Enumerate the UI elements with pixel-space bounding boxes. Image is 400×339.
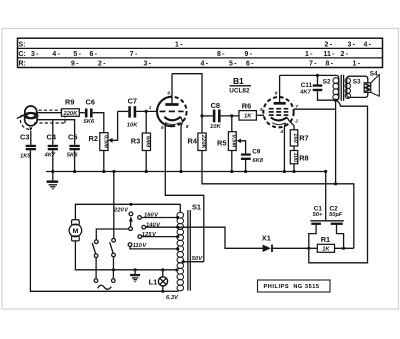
svg-text:8 -: 8 - <box>326 61 334 68</box>
wire bus to C1/C2 plus <box>325 172 327 221</box>
capacitor C3 <box>20 132 36 159</box>
pentode anode lead pin 6 <box>279 75 281 103</box>
R5 wiper arrow <box>241 141 246 154</box>
svg-text:M: M <box>73 228 79 235</box>
pentode heater arc pin 4 <box>272 123 285 125</box>
svg-text:2 -: 2 - <box>341 51 349 58</box>
svg-text:50V: 50V <box>192 256 203 262</box>
svg-text:S1: S1 <box>192 202 201 211</box>
wire wiper node to C7 <box>118 110 129 112</box>
transformer tap dots <box>176 216 179 219</box>
node R8 on bus <box>292 170 295 173</box>
svg-text:R:: R: <box>19 61 26 68</box>
svg-text:8 -: 8 - <box>217 51 225 58</box>
feedback/screen supply line from S2 bottom node to rectifier node <box>309 100 368 263</box>
svg-text:5K6: 5K6 <box>84 119 95 125</box>
node R3 on bus <box>145 170 148 173</box>
svg-text:S:: S: <box>19 41 26 48</box>
wire pickup to R9 <box>37 112 62 114</box>
node C9 on bus <box>244 170 247 173</box>
svg-text:50+: 50+ <box>313 212 323 218</box>
svg-text:6K8: 6K8 <box>252 158 263 164</box>
svg-text:C3: C3 <box>20 132 29 141</box>
node R5 on bus <box>230 170 233 173</box>
output transformer S2 primary <box>323 75 339 100</box>
svg-text:6,3V: 6,3V <box>166 295 179 301</box>
svg-text:1: 1 <box>149 105 152 111</box>
wire C5 to bus <box>74 150 76 171</box>
pentode anode bar <box>274 102 286 105</box>
svg-text:C9: C9 <box>252 148 261 155</box>
svg-text:R2: R2 <box>89 134 98 143</box>
resistor R9 <box>62 98 80 117</box>
svg-text:110 V: 110 V <box>133 243 148 249</box>
svg-text:C8: C8 <box>211 101 220 110</box>
pentode cathode arc pin 2 <box>271 117 287 120</box>
capacitor C4 <box>44 132 58 158</box>
svg-text:2: 2 <box>294 118 298 124</box>
svg-text:B1: B1 <box>233 76 244 86</box>
svg-text:R4: R4 <box>188 136 198 145</box>
svg-text:10K: 10K <box>127 122 138 128</box>
node pentode heater on bus <box>283 170 286 173</box>
PHILIPS type label <box>258 280 331 292</box>
svg-text:220 V: 220 V <box>113 207 129 213</box>
triode cathode arc pin 8 <box>164 117 180 121</box>
svg-text:9 -: 9 - <box>245 51 253 58</box>
svg-text:R3: R3 <box>131 137 140 146</box>
B+ vertical from S2 bottom to R1 <box>335 100 337 184</box>
triode anode lead pin 9 <box>171 74 173 105</box>
svg-text:220K: 220K <box>62 111 78 117</box>
filter caps C1 C2 <box>309 206 344 249</box>
triode grid dashes pin 1 <box>149 105 184 111</box>
svg-text:C5: C5 <box>68 132 77 141</box>
wire R2 to bus <box>103 151 105 172</box>
svg-text:100: 100 <box>292 152 298 162</box>
140V tap <box>142 222 161 229</box>
svg-text:C7: C7 <box>128 97 137 106</box>
svg-text:5 -: 5 - <box>73 51 81 58</box>
svg-text:4 -: 4 - <box>364 41 372 48</box>
triode heater arc pin 5 <box>166 123 180 125</box>
resistor R1 <box>309 235 354 253</box>
svg-text:0,5M: 0,5M <box>103 135 109 148</box>
triode anode bar <box>165 103 178 106</box>
svg-text:X1: X1 <box>262 234 271 243</box>
svg-text:C:: C: <box>19 51 26 58</box>
capacitor C9 <box>241 148 264 163</box>
svg-text:9: 9 <box>167 91 170 97</box>
potentiometer R5 <box>217 132 237 151</box>
svg-text:R7: R7 <box>299 134 308 143</box>
triode anode loop to R4 <box>172 74 202 133</box>
svg-text:R9: R9 <box>65 98 74 107</box>
svg-text:7 -: 7 - <box>130 51 138 58</box>
svg-text:3 -: 3 - <box>31 51 39 58</box>
power transformer S1 <box>177 202 201 291</box>
node C5 on bus <box>73 170 76 173</box>
svg-text:6M8: 6M8 <box>145 136 151 148</box>
svg-text:160: 160 <box>292 133 298 143</box>
svg-text:UCL82: UCL82 <box>229 88 250 95</box>
wire R4 bottom to B+ node <box>202 151 336 184</box>
wire C6 to R2 top <box>93 113 104 133</box>
wire R9 to C6 <box>79 112 85 114</box>
wire C3 down left side to bottom rail <box>30 150 162 291</box>
svg-text:7 -: 7 - <box>309 61 317 68</box>
svg-text:5K6: 5K6 <box>67 152 78 158</box>
110V tap <box>128 243 177 249</box>
capacitor C6 <box>84 97 95 125</box>
50V tap to heater chain <box>183 256 204 262</box>
secondary S3 and loop <box>345 76 368 98</box>
svg-text:4K7: 4K7 <box>44 152 56 158</box>
resistor R7 <box>290 130 308 146</box>
svg-text:1K5: 1K5 <box>20 154 31 160</box>
legend row R resistors <box>19 61 361 68</box>
svg-text:4 -: 4 - <box>201 61 209 68</box>
svg-text:11 -: 11 - <box>324 51 336 58</box>
svg-text:S3: S3 <box>353 79 361 86</box>
pentode screen lead pin 7 <box>293 108 335 110</box>
resistor R4 <box>188 133 207 151</box>
svg-text:2 -: 2 - <box>325 41 333 48</box>
R2 wiper arrow <box>112 111 117 140</box>
svg-text:5 -: 5 - <box>229 61 237 68</box>
svg-text:R8: R8 <box>299 154 308 163</box>
svg-text:1K: 1K <box>244 114 252 120</box>
mains switch S1a <box>92 229 129 282</box>
svg-text:220K: 220K <box>200 134 206 150</box>
svg-text:1 -: 1 - <box>305 51 313 58</box>
pickup cartridge <box>17 106 38 126</box>
svg-text:PHILIPS NG 3515: PHILIPS NG 3515 <box>264 284 320 290</box>
svg-text:10K: 10K <box>210 124 221 130</box>
svg-text:5: 5 <box>161 125 164 131</box>
capacitor C5 <box>67 132 80 158</box>
AC mains squiggle <box>98 285 112 289</box>
svg-text:R1: R1 <box>321 235 330 244</box>
160V tap <box>138 213 178 220</box>
svg-text:0,5M: 0,5M <box>231 135 237 148</box>
pilot lamp L1 <box>149 270 168 293</box>
wire pickup to C3 <box>30 131 32 145</box>
svg-text:9 -: 9 - <box>71 61 79 68</box>
potentiometer R2 <box>89 133 109 151</box>
svg-text:S2: S2 <box>323 78 331 85</box>
node switch feed on bus <box>112 170 115 173</box>
svg-text:C6: C6 <box>86 97 95 106</box>
speaker S4 <box>364 71 379 97</box>
wire motor bottom to rail <box>75 241 176 270</box>
capacitor C11 <box>299 75 335 100</box>
svg-text:1 -: 1 - <box>175 41 183 48</box>
wire C7 to grid node <box>136 110 157 112</box>
bottom rail to transformer <box>163 290 178 292</box>
wire motor top to mains line <box>75 204 180 220</box>
stylus tip <box>29 127 32 131</box>
node C4/ground on bus <box>51 170 54 173</box>
125V tap <box>138 232 178 239</box>
svg-text:3 -: 3 - <box>144 61 152 68</box>
node R2 on bus <box>102 170 105 173</box>
svg-text:4 -: 4 - <box>52 51 60 58</box>
pentode grid dash rows <box>269 109 289 115</box>
transformer core <box>340 75 342 101</box>
svg-text:50µF: 50µF <box>329 212 343 218</box>
diode X1 <box>262 234 309 252</box>
legend row C capacitors <box>19 51 349 58</box>
svg-text:2 -: 2 - <box>98 61 106 68</box>
wire pickup lower terminal <box>37 120 75 145</box>
S/C/R reference bars <box>18 38 383 67</box>
svg-text:4K7: 4K7 <box>299 90 311 96</box>
dashed arm outline <box>20 110 65 129</box>
ground symbol 2 <box>130 270 140 283</box>
legend row S switches <box>19 41 372 48</box>
svg-text:8: 8 <box>186 124 189 130</box>
svg-text:6: 6 <box>275 91 278 97</box>
svg-text:R6: R6 <box>242 102 251 111</box>
resistor R3 <box>131 133 151 151</box>
HT winding line to rectifier <box>146 227 263 248</box>
svg-text:6 -: 6 - <box>246 61 254 68</box>
resistor R6 <box>239 102 256 121</box>
220V tap <box>113 207 133 230</box>
triode U1a circle <box>157 97 187 127</box>
pentode U1b circle <box>263 97 293 127</box>
node triode cathode on bus <box>179 170 182 173</box>
svg-text:1 -: 1 - <box>353 61 361 68</box>
svg-text:1K: 1K <box>322 247 330 253</box>
ground bus <box>46 171 326 173</box>
pentode anode line to S2 <box>280 74 336 76</box>
svg-text:R5: R5 <box>217 139 226 148</box>
capacitor C8 <box>210 101 221 130</box>
mains switch S1b <box>110 172 116 283</box>
wire C4 branch <box>52 120 54 145</box>
svg-text:7: 7 <box>295 104 298 110</box>
motor M1 <box>69 220 82 241</box>
capacitor C7 <box>127 97 138 129</box>
svg-text:C4: C4 <box>47 132 57 141</box>
svg-text:3 -: 3 - <box>348 41 356 48</box>
resistor R8 <box>290 151 308 164</box>
svg-text:L1: L1 <box>149 277 158 286</box>
svg-text:6 -: 6 - <box>90 51 98 58</box>
wire C4 to bus <box>52 150 54 171</box>
svg-text:3: 3 <box>260 107 263 113</box>
tube B1 label <box>229 76 251 95</box>
node bus end to C1/C2 <box>324 170 327 173</box>
svg-text:C11: C11 <box>301 82 313 89</box>
svg-text:4: 4 <box>279 129 283 135</box>
ground symbol <box>47 172 59 191</box>
